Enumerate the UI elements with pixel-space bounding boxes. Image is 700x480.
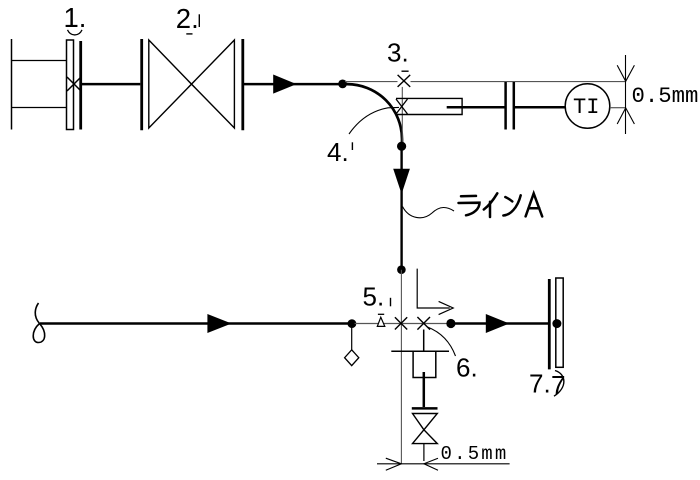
valve stem	[423, 372, 426, 407]
svg-text:3.: 3.	[387, 38, 409, 68]
label 7.	[529, 369, 565, 400]
label 4.	[327, 137, 352, 167]
X mark at point 5	[395, 317, 407, 329]
flow arrow on bottom pipe right	[486, 314, 509, 333]
spool piece / blind flange element 1	[12, 39, 82, 130]
instrument bubble TI	[565, 84, 610, 129]
thin center line down to dimension	[400, 270, 402, 464]
wire: line from seal to instrument TI	[515, 106, 565, 109]
instrument tap line (thin horizontal, left part)	[345, 81, 398, 83]
dim arrow pointing left	[424, 458, 438, 470]
junction node at tee	[397, 265, 406, 274]
wire: main vertical pipe	[400, 146, 402, 270]
valve 2	[142, 39, 243, 130]
junction node below bend	[397, 142, 406, 151]
junction node drain	[348, 319, 357, 328]
label line A (katakana RA-I-N A)	[459, 193, 543, 217]
extension line from TI to dimension	[610, 107, 626, 109]
wire: bottom pipe thick right	[454, 322, 549, 325]
dimension arrow pointing down	[617, 65, 634, 81]
bottom valve bowtie	[413, 414, 438, 444]
label 2.	[176, 3, 200, 34]
svg-text:TI: TI	[573, 95, 599, 120]
X mark at probe left end	[396, 99, 408, 114]
dimension line bottom	[377, 463, 510, 465]
wire: pipe from element 1 to valve 2	[82, 83, 140, 86]
label 5.	[363, 281, 391, 311]
probe rectangle (open left end)	[396, 98, 462, 114]
wire: thin middle segment of bottom pipe	[355, 323, 448, 325]
element 7 blind rectangle	[556, 278, 563, 367]
corner bracket with open arrow	[417, 269, 453, 315]
tee bar	[391, 350, 449, 352]
sample box	[413, 351, 436, 377]
dimension arrow pointing up	[617, 108, 634, 124]
drain diamond	[345, 350, 359, 366]
dimension line vertical (top right)	[625, 55, 627, 134]
flow arrow on bottom pipe left	[207, 314, 231, 333]
stub below valve	[423, 444, 425, 461]
wire: bottom pipe thick left	[40, 322, 349, 325]
svg-text:4.: 4.	[327, 137, 349, 167]
svg-text:6.: 6.	[456, 353, 478, 383]
dim arrow pointing right	[386, 458, 402, 470]
flow arrow on top pipe	[273, 75, 296, 94]
svg-text:0.5mm: 0.5mm	[632, 83, 699, 109]
junction node right of X marks	[446, 319, 455, 328]
element 7 thick bar	[548, 279, 551, 369]
vertical instrument connection line	[401, 87, 403, 146]
wire: pipe from valve 2 to bend	[244, 83, 348, 86]
svg-text:0.5mm: 0.5mm	[441, 443, 509, 465]
svg-text:5.: 5.	[363, 281, 385, 311]
dash above test triangle	[378, 313, 384, 315]
svg-text:1.: 1.	[64, 2, 87, 33]
instrument tap line (thin horizontal, right part to dimension)	[411, 81, 626, 83]
valve top bar	[412, 407, 438, 410]
junction node at bend	[338, 80, 347, 89]
wire: pipe bend (quarter arc) down	[347, 84, 402, 147]
drain drop line	[351, 326, 353, 350]
test point triangle	[377, 317, 385, 326]
svg-text:7.: 7.	[529, 369, 551, 399]
break loop at start of bottom pipe	[33, 303, 44, 343]
branch down from X mark 6	[423, 330, 425, 352]
leader curve for label 4	[349, 107, 399, 134]
wire: line from probe to capacitor seal	[447, 106, 505, 109]
leader dash under label 3	[402, 70, 409, 72]
capacitor-style seal bars	[504, 82, 507, 130]
X mark at point 3	[398, 75, 411, 87]
label 1.	[64, 2, 87, 35]
leader squiggle for line A	[403, 207, 455, 218]
X mark at point 6	[417, 317, 430, 330]
junction node at element 7	[552, 319, 561, 328]
flow arrow pointing down	[393, 169, 410, 194]
svg-text:2.: 2.	[176, 3, 199, 34]
leader curve for label 6	[428, 327, 456, 356]
